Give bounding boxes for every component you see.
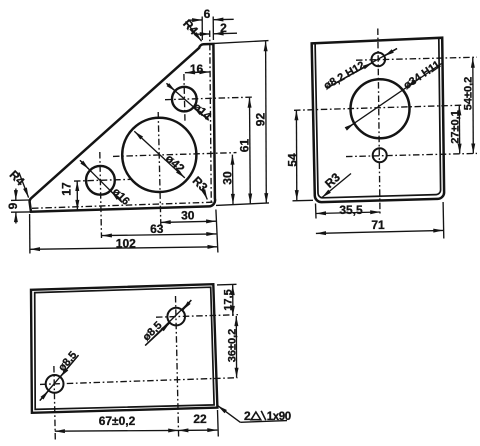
hole ø14	[172, 87, 197, 112]
dim line ø16 (diagonal with outside arrows)	[80, 160, 122, 202]
center line vertical through holes	[378, 29, 380, 216]
dim 22	[178, 429, 217, 431]
dim line ø34 (inside arrows)	[347, 64, 442, 129]
svg-text:2: 2	[244, 409, 251, 423]
dim 16 line	[185, 71, 210, 74]
leader R3 (front view)	[322, 174, 351, 198]
hidden line horizontal (above bottom edge)	[32, 202, 213, 208]
extension right edge down (22 dim)	[217, 410, 220, 437]
hole ø8.5 left	[46, 375, 64, 393]
dim 92 vertical	[265, 41, 268, 203]
svg-text:1x90: 1x90	[267, 411, 291, 423]
dim 17,5	[232, 285, 234, 316]
extension line right edge down	[216, 210, 218, 253]
hole ø16	[86, 166, 115, 195]
hole ø42	[122, 118, 196, 192]
hole ø8.2 bottom	[373, 148, 387, 162]
svg-text:2: 2	[220, 21, 227, 35]
hole ø8.2 top	[372, 53, 386, 67]
dim 6 extension lines	[201, 17, 203, 41]
extension right edge down	[442, 202, 445, 239]
center line ø42 vertical	[158, 112, 161, 225]
dim 102 horizontal	[30, 247, 218, 250]
svg-text:6: 6	[204, 7, 211, 21]
dim 30 vertical	[231, 155, 234, 204]
dim 54±0.2 vertical	[472, 58, 475, 154]
dim 36±0.2	[235, 316, 237, 378]
center line ø14 horizontal	[165, 97, 253, 100]
dim 2 line	[198, 33, 210, 35]
center line left hole horizontal (long, to 36 dim)	[40, 378, 238, 385]
dim 54 left extension	[293, 199, 314, 202]
svg-text:16: 16	[190, 62, 204, 76]
center line right hole horizontal	[156, 315, 238, 318]
leader R4 bottom-left	[19, 173, 29, 198]
center line bottom hole horizontal	[346, 153, 477, 156]
dim 35,5	[316, 212, 380, 214]
center line ø34 horizontal	[294, 105, 462, 110]
dim line ø14 (diagonal with outside arrows)	[167, 83, 209, 120]
dim 71	[316, 230, 444, 233]
center line ø16 vertical	[100, 152, 102, 238]
dim line ø8.2 (diagonal through hole, outside arrows)	[327, 49, 397, 89]
dim 63 horizontal	[102, 234, 217, 236]
dim 17 line	[76, 181, 78, 210]
triangle plate outline	[30, 44, 215, 212]
front plate outer outline	[312, 38, 444, 202]
chamfer slash	[261, 411, 266, 420]
svg-text:9: 9	[6, 202, 20, 209]
center line ø16 horizontal	[74, 179, 132, 181]
extension top edge right	[217, 283, 237, 286]
svg-text:54: 54	[285, 153, 299, 167]
svg-text:61: 61	[237, 139, 251, 153]
extension line left corner down	[29, 214, 31, 254]
center line top hole horizontal	[356, 57, 477, 60]
leader R4 top	[186, 22, 202, 42]
dim 54 left vertical	[295, 110, 297, 200]
front plate inner edge line	[315, 38, 441, 198]
svg-text:67±0,2: 67±0,2	[99, 414, 136, 428]
hole ø8.5 right	[167, 308, 185, 326]
leader R3 bottom-right	[203, 188, 208, 200]
svg-text:22: 22	[193, 412, 207, 426]
dim line ø8.5 left (diagonal, outside arrows)	[40, 355, 79, 400]
dim 61 vertical	[249, 98, 252, 204]
dim line ø42 (inside arrows)	[134, 131, 185, 178]
dim 30 horizontal	[161, 221, 217, 222]
svg-text:30: 30	[181, 209, 195, 223]
svg-text:54±0,2: 54±0,2	[463, 77, 475, 111]
chamfer triangle symbol	[251, 412, 261, 420]
center line right hole vertical	[176, 296, 179, 437]
dim 9 extension lines	[11, 199, 29, 201]
base plate inner edge	[35, 287, 214, 409]
center line ø14 vertical	[184, 74, 185, 122]
svg-text:92: 92	[253, 113, 267, 127]
chamfer leader	[218, 406, 241, 423]
center line left hole vertical	[54, 366, 55, 440]
svg-text:102: 102	[116, 236, 136, 250]
svg-text:27±0,1: 27±0,1	[449, 110, 461, 144]
svg-text:17,5: 17,5	[223, 289, 235, 310]
extension line top corner to right	[215, 41, 269, 44]
svg-text:35,5: 35,5	[339, 203, 363, 217]
svg-text:17: 17	[59, 182, 73, 196]
dim 6 arrows	[189, 19, 203, 21]
base plate outer outline	[31, 284, 217, 413]
extension line bottom edge to right	[216, 203, 269, 206]
dim 27±0.1 vertical	[458, 105, 460, 154]
extension left edge down	[315, 204, 318, 219]
dim 67±0.2	[55, 429, 179, 432]
hidden line vertical (2mm inside right edge)	[210, 31, 212, 206]
hole ø34	[351, 79, 410, 138]
svg-text:30: 30	[220, 171, 234, 185]
dim line ø8.5 right (diagonal, outside arrows)	[145, 300, 191, 345]
svg-text:71: 71	[371, 218, 385, 232]
svg-text:36±0,2: 36±0,2	[226, 329, 238, 363]
svg-text:63: 63	[150, 222, 164, 236]
center line ø42 horizontal	[113, 153, 237, 157]
dim 9 arrows	[15, 189, 17, 201]
